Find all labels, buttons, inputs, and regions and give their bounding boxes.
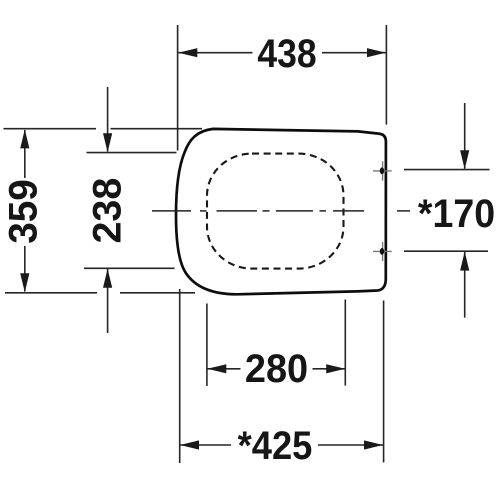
svg-text:280: 280	[245, 347, 308, 391]
svg-text:438: 438	[257, 31, 316, 75]
svg-text:*425: *425	[238, 425, 313, 469]
svg-text:238: 238	[86, 178, 130, 244]
svg-text:359: 359	[2, 179, 45, 244]
svg-text:*170: *170	[418, 192, 495, 236]
